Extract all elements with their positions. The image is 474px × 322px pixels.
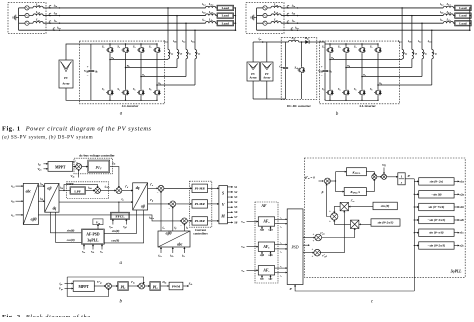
output s1b bbox=[454, 206, 459, 208]
AF dashed box bbox=[255, 202, 278, 283]
coupling branch i_Cn with filter inductor L_fn bbox=[194, 29, 196, 31]
svg-text:PSD: PSD bbox=[290, 246, 298, 250]
sine generator box sin (&#952;&#8722;2&#960;) bbox=[414, 180, 418, 182]
reference inputs s1c s2c bbox=[261, 276, 263, 280]
AC source v_sc bbox=[19, 22, 25, 24]
dc bus rails bbox=[91, 43, 157, 45]
FFCL block bbox=[111, 212, 130, 219]
DC-AC 4-leg inverter dashed box bbox=[319, 41, 399, 104]
sin(theta+2pi/3) function box bbox=[371, 219, 400, 226]
frequency sum bbox=[377, 176, 382, 178]
load c return wire bbox=[234, 22, 236, 24]
svg-text:3φPLL: 3φPLL bbox=[87, 238, 99, 242]
svg-text:Load: Load bbox=[459, 14, 466, 18]
svg-text:S₅: S₅ bbox=[354, 45, 357, 49]
svg-text:AFc: AFc bbox=[262, 269, 269, 274]
load inductor L_Lb bbox=[443, 14, 453, 16]
PV negative wire (a) bbox=[66, 88, 91, 100]
theta output bbox=[405, 178, 414, 180]
AF_b outputs to PSD bbox=[275, 244, 288, 246]
load b return wire bbox=[470, 15, 471, 17]
svg-text:4-L inverter: 4-L inverter bbox=[359, 104, 376, 108]
svg-text:abc: abc bbox=[177, 242, 183, 246]
inverter leg n bbox=[377, 44, 379, 46]
source inductor L_sb bbox=[267, 15, 271, 17]
three-phase grid source dashed box bbox=[246, 3, 284, 34]
svg-text:−: − bbox=[87, 74, 89, 78]
svg-text:s2c: s2c bbox=[268, 276, 274, 280]
load a return wire bbox=[470, 7, 471, 9]
svg-text:S₇: S₇ bbox=[370, 45, 373, 49]
sine generator box &#8722;sin (&#952;+2&#960;/3) bbox=[414, 245, 415, 246]
IGBT S&#8321; (top, leg a) bbox=[106, 46, 113, 55]
output s2a bbox=[454, 193, 459, 195]
svg-text:Load: Load bbox=[222, 14, 229, 18]
PWM block (fig2b) bbox=[169, 282, 183, 290]
svg-text:−sin (θ−2π/3): −sin (θ−2π/3) bbox=[428, 218, 446, 222]
PV parallel top bus with i_pv bbox=[252, 42, 254, 62]
load inductor L_La bbox=[206, 6, 216, 8]
PV array 2 (b) bbox=[261, 62, 273, 81]
svg-text:PV: PV bbox=[64, 77, 68, 80]
load c bbox=[216, 22, 217, 24]
AC source v_sc bbox=[257, 22, 263, 24]
sin(theta) function box bbox=[373, 202, 397, 210]
coupling branch i_Ca with filter inductor L_fa bbox=[167, 7, 169, 8]
current error summing junctions bbox=[158, 185, 164, 191]
gate signals S1-S8 bbox=[227, 186, 232, 188]
svg-text:S₂: S₂ bbox=[102, 87, 105, 91]
svg-text:p̃: p̃ bbox=[321, 190, 324, 194]
FFCL inputs v_palpha v_pbeta bbox=[112, 220, 114, 225]
svg-text:v₂: v₂ bbox=[280, 227, 282, 229]
svg-text:PI-MR: PI-MR bbox=[195, 186, 206, 190]
PLL inputs v_sa v_sb v_sc bbox=[83, 245, 85, 250]
V_dc feedback into sum bbox=[78, 169, 80, 177]
V_sp output box bbox=[93, 219, 103, 225]
svg-text:Array: Array bbox=[263, 77, 271, 80]
inverter leg n bbox=[156, 44, 158, 46]
sine generator box &#8722;sin (&#952;) bbox=[414, 194, 415, 195]
input v_sa bbox=[247, 221, 259, 223]
measured currents from abc-ab0 block up to sums bbox=[160, 191, 162, 231]
abc to alpha-beta-0 block (filter currents) bbox=[158, 231, 190, 247]
svg-text:controllers: controllers bbox=[193, 232, 208, 236]
sine generator box &#8722;sin (&#952;&#8722;2&#960;/3) bbox=[414, 219, 415, 220]
svg-text:s1a: s1a bbox=[259, 228, 265, 232]
svg-text:dc-bus voltage controller: dc-bus voltage controller bbox=[79, 154, 115, 158]
svg-text:s2c: s2c bbox=[459, 244, 465, 248]
current sensor i_sb bbox=[287, 13, 289, 15]
current controllers dashed box bbox=[190, 181, 212, 227]
v*_pbeta wire up to mult1 bbox=[319, 211, 344, 253]
PV parallel bottom bus bbox=[252, 81, 254, 99]
phase A line bbox=[281, 7, 443, 9]
svg-text:4-L inverter: 4-L inverter bbox=[122, 104, 139, 108]
DC-AC 4-leg inverter dashed box bbox=[79, 41, 164, 104]
IGBT S&#8324; (bottom, leg b) bbox=[342, 88, 349, 97]
svg-text:MPPT: MPPT bbox=[55, 165, 66, 169]
svg-text:dq: dq bbox=[136, 186, 140, 190]
svg-text:abc: abc bbox=[26, 189, 32, 193]
PSD block bbox=[287, 209, 303, 285]
svg-text:Array: Array bbox=[250, 77, 258, 80]
i*_dc wire bbox=[128, 285, 138, 287]
AF-PSD 3phi-PLL block bbox=[82, 229, 105, 244]
current sensor i_sb bbox=[49, 13, 51, 15]
coupling branch i_Cn with filter inductor L_fn bbox=[431, 29, 433, 31]
adaptive filter AF_c bbox=[258, 266, 274, 275]
svg-text:αβ: αβ bbox=[141, 204, 145, 208]
svg-text:Load: Load bbox=[459, 6, 466, 10]
coupling branch i_Cc with filter inductor L_fc bbox=[185, 22, 187, 24]
load c bbox=[453, 22, 454, 24]
theta distribution bus bbox=[413, 179, 415, 291]
load inductor L_Lc bbox=[443, 22, 453, 24]
svg-text:S₂: S₂ bbox=[322, 87, 325, 91]
theta feedback to PSD bbox=[295, 285, 414, 291]
svg-text:Load: Load bbox=[459, 21, 466, 25]
voltage sum (fig2b) bbox=[106, 283, 112, 289]
PLL error sum bbox=[324, 178, 330, 184]
IGBT S&#8322; (bottom, leg a) bbox=[106, 88, 113, 97]
inputs i_La i_Lb i_Lc bbox=[16, 185, 24, 187]
mult1 output into power sum bbox=[334, 207, 340, 213]
svg-text:S₈: S₈ bbox=[149, 87, 152, 91]
K_I PLL /s block bbox=[344, 188, 366, 196]
IGBT S&#8327; (top, leg n) bbox=[153, 46, 160, 55]
load a bbox=[216, 7, 217, 9]
IGBT S&#8325; (top, leg c) bbox=[137, 46, 144, 55]
i_q wire bbox=[59, 201, 133, 203]
svg-text:sin (θ−2π): sin (θ−2π) bbox=[429, 179, 443, 183]
MPPT inputs i_pv V_pv bbox=[44, 163, 48, 165]
svg-text:+: + bbox=[87, 65, 89, 69]
svg-text:−: − bbox=[94, 191, 96, 195]
ground bbox=[251, 15, 255, 21]
load return vertical wire bbox=[235, 8, 237, 30]
AC source v_sa bbox=[257, 7, 263, 9]
IGBT S&#8328; (bottom, leg n) bbox=[153, 88, 160, 97]
svg-text:LPF: LPF bbox=[74, 189, 81, 193]
svg-text:S₄: S₄ bbox=[117, 87, 120, 91]
MPPT block (fig2b) bbox=[73, 281, 94, 291]
source inductor L_sc bbox=[267, 22, 271, 24]
IGBT S&#8326; (bottom, leg c) bbox=[137, 88, 144, 97]
IGBT S&#8325; (top, leg c) bbox=[358, 46, 365, 55]
svg-text:PI-MR: PI-MR bbox=[195, 219, 206, 223]
filter current inputs i_Ca i_Cb i_Cn bbox=[160, 248, 162, 253]
svg-text:s1b: s1b bbox=[259, 253, 265, 257]
svg-text:s2b: s2b bbox=[267, 253, 273, 257]
svg-text:s1b: s1b bbox=[459, 205, 465, 209]
AC source v_sb bbox=[257, 15, 263, 17]
LPF block bbox=[70, 187, 86, 194]
phase A line bbox=[43, 7, 205, 9]
i*_alpha wire bbox=[148, 187, 159, 189]
svg-text:S₆: S₆ bbox=[354, 87, 357, 91]
ground bbox=[13, 15, 17, 21]
dc-bus voltage controller dashed box bbox=[74, 158, 112, 174]
IGBT S&#8326; (bottom, leg c) bbox=[358, 88, 365, 97]
coupling branch i_Cb with filter inductor L_fb bbox=[411, 15, 413, 17]
svg-text:−: − bbox=[321, 74, 323, 78]
svg-text:S₅: S₅ bbox=[133, 45, 136, 49]
AC source v_sb bbox=[19, 15, 25, 17]
IGBT S&#8328; (bottom, leg n) bbox=[374, 88, 381, 97]
load b return wire bbox=[234, 15, 236, 17]
svg-text:v₂: v₂ bbox=[280, 275, 282, 277]
svg-text:sin (θ+2π/3): sin (θ+2π/3) bbox=[377, 221, 394, 225]
svg-text:HPF: HPF bbox=[67, 182, 73, 186]
AC source v_sa bbox=[19, 7, 25, 9]
coupling branch i_Cc with filter inductor L_fc bbox=[421, 22, 423, 24]
PI-MR controller blocks bbox=[164, 187, 192, 189]
svg-text:PI-MR: PI-MR bbox=[195, 202, 206, 206]
multiplier sin x v_palpha (square) bbox=[340, 202, 348, 210]
output s2b bbox=[454, 219, 459, 221]
summing junction V*_dc - V_dc bbox=[73, 166, 76, 168]
top feedback wire into current sum bbox=[67, 277, 144, 283]
svg-text:dq: dq bbox=[53, 206, 57, 210]
sin cos outputs to left (ab-dq block) bbox=[51, 212, 82, 233]
svg-text:s1c: s1c bbox=[259, 276, 265, 280]
i_Ld wire into HPF bbox=[59, 190, 70, 192]
svg-text:αβ0: αβ0 bbox=[166, 232, 172, 236]
current sensor i_sa bbox=[49, 5, 51, 7]
input v_sc bbox=[247, 269, 259, 271]
svg-text:S₁: S₁ bbox=[322, 45, 325, 49]
v*_palpha wire up to mult3 bbox=[322, 229, 355, 238]
svg-text:s1c: s1c bbox=[459, 231, 465, 235]
svg-text:+: + bbox=[321, 65, 323, 69]
PV array (a) bbox=[59, 60, 73, 88]
svg-text:−: − bbox=[169, 206, 171, 210]
HPF summing junction bbox=[86, 190, 95, 192]
svg-text:S₆: S₆ bbox=[133, 87, 136, 91]
current sensor i_sa bbox=[287, 5, 289, 7]
current sum (fig2b) bbox=[139, 283, 145, 289]
load c return wire bbox=[470, 22, 471, 24]
mult3 output into power sum bbox=[334, 220, 350, 224]
svg-text:MPPT: MPPT bbox=[79, 285, 90, 289]
svg-text:s2a: s2a bbox=[459, 192, 465, 196]
inverter leg c bbox=[140, 44, 142, 46]
load a return wire bbox=[234, 7, 236, 9]
dc bus rails bbox=[325, 43, 378, 45]
IGBT S&#8321; (top, leg a) bbox=[326, 46, 333, 55]
svg-text:v₁: v₁ bbox=[280, 266, 282, 268]
adaptive filter AF_a bbox=[258, 217, 274, 226]
svg-text:DC-DC converter: DC-DC converter bbox=[287, 104, 311, 108]
svg-text:v₂: v₂ bbox=[280, 252, 282, 254]
svg-text:Load: Load bbox=[222, 6, 229, 10]
svg-text:αβ: αβ bbox=[47, 187, 51, 191]
svg-text:−: − bbox=[75, 168, 77, 172]
svg-text:S₈: S₈ bbox=[370, 87, 373, 91]
svg-text:S₁: S₁ bbox=[102, 45, 105, 49]
svg-text:v₁: v₁ bbox=[280, 217, 282, 219]
PV positive wire (a) bbox=[66, 44, 91, 60]
load b bbox=[216, 15, 217, 17]
svg-text:sin (θ−7π/6): sin (θ−7π/6) bbox=[427, 205, 444, 209]
svg-text:PWM: PWM bbox=[172, 284, 180, 288]
dq to alpha-beta block bbox=[133, 183, 148, 210]
AF_c outputs to PSD bbox=[275, 267, 288, 269]
current reference summing junction bbox=[116, 188, 122, 194]
inverter leg c bbox=[361, 44, 363, 46]
phase C line bbox=[281, 22, 443, 24]
input v_sb bbox=[247, 246, 259, 248]
sine generator box sin (&#952;&#8722;&#960;/6) bbox=[414, 232, 415, 233]
abc to alpha-beta-0 block (load currents) bbox=[23, 183, 38, 224]
svg-text:M: M bbox=[220, 215, 225, 219]
dc-link capacitor C_dc with voltage V_dc bbox=[324, 44, 326, 70]
coupling branch i_Cb with filter inductor L_fb bbox=[176, 15, 178, 17]
source inductor L_sa bbox=[29, 7, 33, 9]
i_Ld,h wire bbox=[100, 190, 116, 192]
svg-text:sin(θ): sin(θ) bbox=[66, 228, 75, 232]
reference inputs s1b s2b bbox=[261, 252, 263, 256]
inverter leg a bbox=[329, 44, 331, 46]
inputs i_pv V_pv (fig2b) bbox=[65, 283, 74, 285]
svg-text:S: S bbox=[222, 192, 224, 196]
load inductor L_Lc bbox=[206, 22, 216, 24]
dc link wire to inverter (b) bbox=[324, 42, 326, 44]
IGBT S&#8323; (top, leg b) bbox=[122, 46, 129, 55]
i*_beta wire bbox=[148, 203, 170, 205]
IGBT S&#8327; (top, leg n) bbox=[374, 46, 381, 55]
current sensor i_sc bbox=[287, 21, 289, 23]
S_dc gate output bbox=[183, 285, 189, 287]
AF_a outputs to PSD bbox=[275, 218, 288, 220]
PI voltage block (fig2b) bbox=[111, 285, 117, 287]
output s2c bbox=[454, 245, 459, 247]
neutral sensor bbox=[53, 28, 55, 30]
svg-text:p̅*m = 0: p̅*m = 0 bbox=[304, 175, 315, 180]
PV array 1 (b) bbox=[247, 62, 259, 81]
svg-text:AF: AF bbox=[261, 204, 267, 208]
svg-text:αβ0: αβ0 bbox=[31, 217, 37, 221]
svg-text:cos(θ): cos(θ) bbox=[111, 239, 119, 243]
boost inductor L_dc bbox=[286, 41, 289, 43]
svg-text:PV: PV bbox=[251, 73, 255, 76]
load inductor L_Lb bbox=[206, 14, 216, 16]
coupling branch i_Ca with filter inductor L_fa bbox=[401, 7, 403, 8]
adaptive filter AF_b bbox=[258, 242, 274, 251]
p~ wire to PLL sum bbox=[327, 184, 331, 217]
PI_V controller block bbox=[88, 160, 110, 172]
svg-text:s1a: s1a bbox=[459, 179, 465, 183]
inverter leg a bbox=[109, 44, 111, 46]
3phiPLL dashed box bbox=[304, 158, 465, 277]
svg-text:cos(θ): cos(θ) bbox=[67, 238, 75, 242]
svg-text:−sin (θ+2π/3): −sin (θ+2π/3) bbox=[428, 244, 446, 248]
i*_d wire into dq-ab block bbox=[122, 190, 133, 192]
phase B line bbox=[43, 15, 205, 17]
FFCL feed wire bbox=[118, 202, 120, 212]
svg-text:S₃: S₃ bbox=[338, 45, 341, 49]
output s1c bbox=[454, 232, 459, 234]
svg-text:3φPLL: 3φPLL bbox=[450, 269, 463, 273]
PSD outputs bbox=[303, 237, 315, 239]
K_P PLL block bbox=[347, 168, 367, 176]
svg-text:−: − bbox=[180, 223, 182, 227]
wires i_Lalpha i_Lbeta bbox=[38, 185, 44, 187]
three-phase grid source dashed box bbox=[8, 3, 46, 34]
svg-text:sin(θ): sin(θ) bbox=[111, 229, 120, 233]
svg-text:S₇: S₇ bbox=[149, 45, 152, 49]
grid neutral bus bbox=[256, 8, 258, 30]
load b bbox=[453, 15, 454, 17]
integrator 1/s bbox=[386, 176, 397, 178]
IGBT S&#8323; (top, leg b) bbox=[342, 46, 349, 55]
svg-text:v₁: v₁ bbox=[280, 243, 282, 245]
reference inputs s1a s2a bbox=[261, 227, 263, 231]
boost diode D_dc bbox=[305, 40, 309, 44]
svg-text:s2a: s2a bbox=[267, 228, 273, 232]
inverter leg b bbox=[345, 44, 347, 46]
multiplier sin2 x v_pbeta (square) bbox=[351, 220, 359, 228]
current sensor i_sc bbox=[49, 21, 51, 23]
PI branch split bbox=[329, 180, 335, 182]
source inductor L_sa bbox=[267, 7, 271, 9]
svg-text:−: − bbox=[157, 190, 159, 194]
phase B line bbox=[281, 15, 443, 17]
sin cos outputs to right (dq-ab block) bbox=[104, 210, 136, 233]
svg-text:−sin (θ): −sin (θ) bbox=[431, 192, 441, 196]
svg-text:PV: PV bbox=[265, 73, 269, 76]
svg-text:FFCL: FFCL bbox=[115, 214, 125, 218]
svg-text:Array: Array bbox=[62, 83, 70, 86]
grid neutral bus bbox=[18, 8, 20, 30]
dc-link capacitor C_dc with voltage V_dc bbox=[90, 44, 92, 70]
V*_pv wire bbox=[94, 285, 105, 287]
output s1a bbox=[454, 180, 459, 182]
svg-text:S₄: S₄ bbox=[338, 87, 341, 91]
sin2 box to mult3 wire bbox=[359, 223, 371, 225]
load a bbox=[453, 7, 454, 9]
HPF bypass wire bbox=[64, 185, 98, 191]
inverter leg b bbox=[125, 44, 127, 46]
SVM block bbox=[219, 186, 228, 224]
svg-text:s2b: s2b bbox=[459, 218, 465, 222]
PI recombine sum bbox=[366, 172, 374, 175]
svg-text:sin (θ): sin (θ) bbox=[380, 204, 390, 208]
phase C line bbox=[43, 22, 205, 24]
V_pv feedback loop bbox=[67, 277, 108, 297]
sin box to mult1 wire bbox=[349, 206, 373, 208]
svg-text:S₃: S₃ bbox=[117, 45, 120, 49]
svg-text:sin (θ−π/6): sin (θ−π/6) bbox=[428, 231, 443, 235]
svg-text:AF-PSD: AF-PSD bbox=[86, 232, 100, 236]
HPF dashed box bbox=[67, 182, 109, 199]
PSD output sums bbox=[315, 234, 322, 241]
IGBT S&#8324; (bottom, leg b) bbox=[122, 88, 129, 97]
source inductor L_sc bbox=[29, 22, 33, 24]
DC-DC boost converter dashed box bbox=[281, 38, 317, 100]
input capacitor C_pv bbox=[285, 42, 287, 67]
MPPT block (fig2a) bbox=[48, 162, 73, 172]
svg-text:PIV: PIV bbox=[94, 165, 102, 171]
svg-text:Load: Load bbox=[222, 21, 229, 25]
i_dc wire from PI_V to current sum bbox=[110, 167, 119, 188]
neutral sensor bbox=[291, 28, 293, 30]
boost switch S_dc bbox=[301, 41, 303, 43]
load return vertical wire bbox=[469, 8, 471, 30]
source inductor L_sb bbox=[29, 15, 33, 17]
IGBT S&#8322; (bottom, leg a) bbox=[326, 88, 333, 97]
